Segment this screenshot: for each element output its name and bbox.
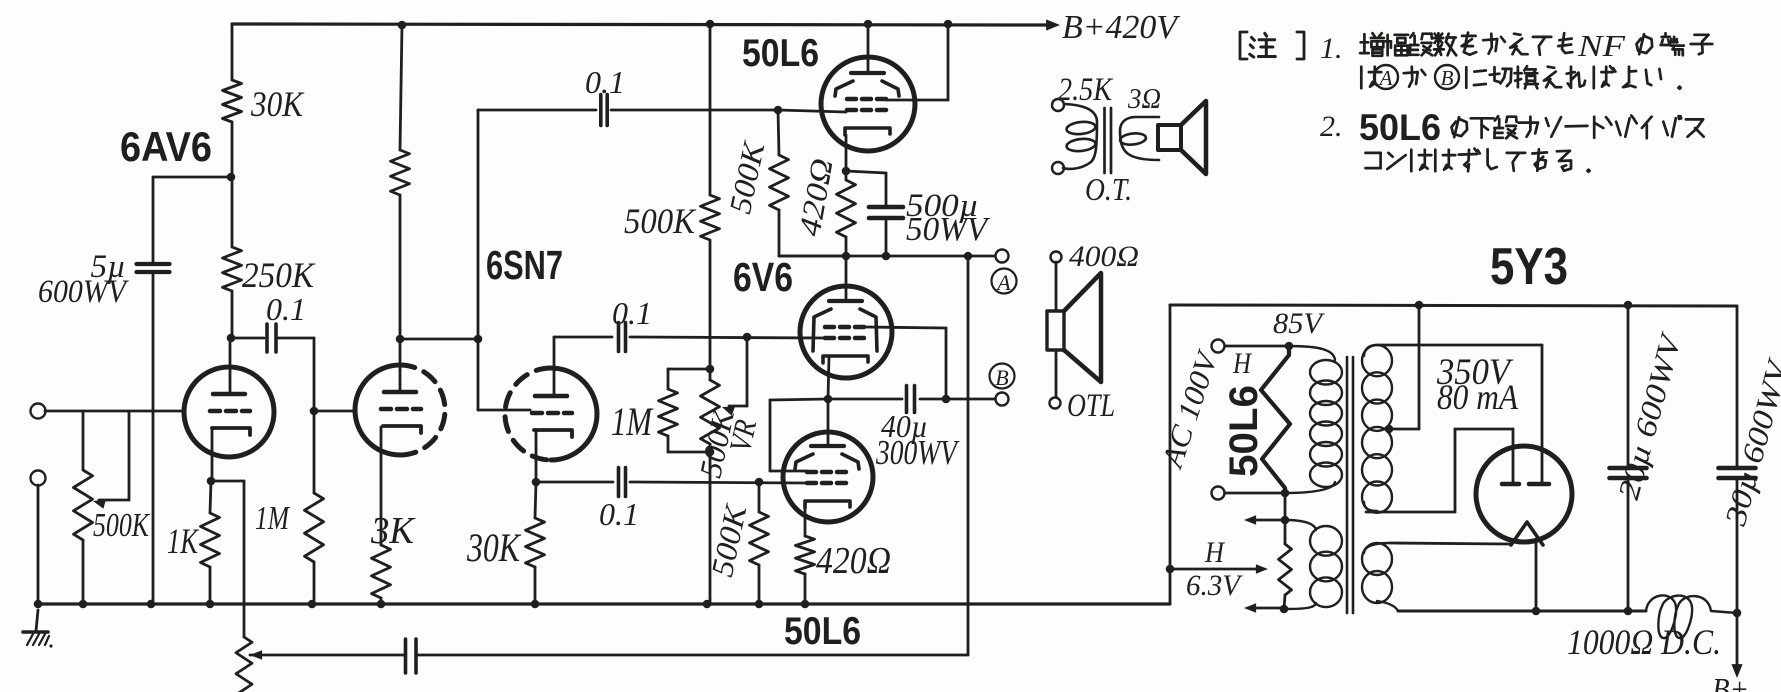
capacitor 0.1 A	[265, 324, 269, 352]
capacitor NFB	[404, 639, 408, 673]
terminal B	[996, 393, 1009, 406]
svg-text:O.T.: O.T.	[1085, 171, 1132, 207]
junction	[227, 173, 236, 182]
wire B+ rail	[232, 24, 1046, 25]
svg-text:6AV6: 6AV6	[120, 123, 212, 170]
junction	[1280, 605, 1289, 614]
wire plate 6AV6	[229, 338, 232, 394]
tube 6AV6	[184, 367, 274, 457]
resistor 1M parallel	[668, 368, 710, 371]
svg-text:0.1: 0.1	[266, 291, 306, 327]
svg-text:B: B	[995, 365, 1008, 390]
junction	[864, 20, 873, 29]
junction	[79, 600, 88, 609]
note line 2 text	[1361, 67, 1381, 89]
junction	[743, 333, 752, 342]
terminal AC top	[1212, 340, 1225, 353]
junction	[1285, 342, 1294, 351]
wire cathode 6AV6	[211, 428, 214, 481]
resistor 3K	[372, 545, 391, 598]
svg-text:600WV: 600WV	[38, 274, 129, 310]
junction	[474, 335, 483, 344]
svg-text:50L6: 50L6	[1222, 385, 1266, 477]
svg-text:400Ω: 400Ω	[1069, 240, 1139, 273]
svg-text:500K: 500K	[93, 507, 151, 544]
wire plate left	[1366, 511, 1455, 514]
resistor 30K	[223, 80, 242, 122]
choke 1000ohm	[1646, 595, 1737, 638]
junction	[942, 395, 951, 404]
resistor 420 upper	[845, 171, 848, 180]
wire grid 6SN7a	[314, 410, 356, 413]
svg-text:OTL: OTL	[1067, 388, 1115, 424]
junction	[964, 252, 973, 261]
svg-text:H: H	[1204, 536, 1226, 569]
junction	[1281, 489, 1290, 498]
svg-text:6SN7: 6SN7	[486, 242, 563, 288]
resistor 500K	[701, 195, 720, 240]
wire plate	[867, 24, 870, 73]
junction	[227, 334, 236, 343]
junction	[706, 448, 715, 457]
resistor humdinger	[1284, 520, 1287, 544]
svg-text:50L6: 50L6	[742, 32, 819, 75]
wire plate 6SN7b	[553, 337, 556, 396]
junction	[207, 477, 216, 486]
terminal input gnd	[31, 471, 46, 486]
svg-text:A: A	[1378, 66, 1393, 90]
wire B line	[828, 398, 902, 401]
wire NFB	[418, 654, 968, 657]
terminal input hot	[31, 404, 46, 419]
svg-text:50WV: 50WV	[906, 211, 991, 248]
resistor 30K cathode	[535, 482, 536, 518]
transformer HV secondary	[1364, 345, 1377, 356]
junction	[882, 252, 891, 261]
junction	[774, 106, 783, 115]
note line 4 text	[1366, 153, 1381, 168]
capacitor 500u 50WV	[846, 171, 886, 173]
transformer 5V winding	[1364, 543, 1390, 553]
wire cap B branch	[477, 110, 480, 339]
speaker OTL	[1047, 311, 1064, 350]
junction	[706, 20, 715, 29]
wire	[630, 482, 806, 483]
resistor plate load	[400, 25, 402, 150]
svg-text:30K: 30K	[466, 525, 522, 570]
label 500K grid	[704, 500, 754, 580]
junction	[703, 600, 712, 609]
wire	[1055, 262, 1058, 311]
wire	[920, 398, 995, 401]
wire cathode 50L6u	[845, 135, 848, 171]
resistor 250K	[223, 247, 242, 291]
junction	[755, 600, 764, 609]
junction	[308, 600, 317, 609]
capacitor 0.1 C	[617, 323, 621, 352]
label 30u 600WV	[1719, 354, 1781, 530]
transformer OT primary	[1063, 104, 1097, 169]
junction	[1166, 565, 1175, 574]
resistor 50L6 ballast	[1261, 346, 1290, 493]
wire plate 50L6l	[827, 399, 830, 446]
junction	[755, 478, 764, 487]
wire screen	[886, 99, 948, 102]
wire grid	[778, 110, 846, 112]
tube 50L6 lower	[783, 432, 873, 522]
terminal OT pri top	[1052, 99, 1064, 111]
resistor 420 lower	[796, 536, 815, 574]
tube 6SN7 a	[355, 365, 400, 455]
wire	[630, 337, 826, 338]
pot wiper	[128, 411, 131, 500]
wire	[1055, 350, 1058, 398]
wire	[231, 337, 264, 340]
junction	[310, 407, 319, 416]
wire	[1225, 492, 1285, 495]
wire CT	[1389, 428, 1419, 431]
wire 5V to filament	[1390, 543, 1509, 544]
label 20u 600WV	[1612, 328, 1688, 503]
svg-text:0.1: 0.1	[599, 496, 639, 532]
junction	[801, 600, 810, 609]
svg-text:50L6: 50L6	[1359, 107, 1441, 148]
junction	[824, 395, 833, 404]
wire 30K branch	[231, 24, 234, 80]
junction	[1532, 607, 1541, 616]
pot 500K	[82, 411, 85, 470]
junction	[944, 20, 953, 29]
capacitor 20u	[1627, 305, 1630, 468]
potentiometer 500K VR	[701, 380, 720, 444]
transformer OT secondary	[1120, 117, 1159, 160]
svg-text:50L6: 50L6	[784, 610, 861, 653]
junction	[377, 600, 386, 609]
capacitor 0.1 B	[599, 95, 603, 126]
label 420 upper	[792, 156, 840, 239]
junction	[532, 478, 541, 487]
resistor 500K grid	[758, 482, 761, 512]
svg-text:3Ω: 3Ω	[1127, 83, 1161, 115]
svg-text:300WV: 300WV	[875, 433, 960, 472]
note bracket 注	[1240, 32, 1247, 59]
tube 50L6 upper	[821, 57, 915, 151]
capacitor 40u 300WV	[905, 386, 909, 413]
wire PS left vertical	[1169, 305, 1172, 604]
wire B+ bus	[1398, 610, 1646, 613]
node A circled	[992, 269, 1017, 294]
note line 1 text	[1360, 33, 1384, 56]
wire filament	[1535, 542, 1538, 611]
svg-text:B+: B+	[1712, 671, 1749, 692]
label 500K fb	[722, 137, 772, 217]
wire screen 50L6l	[770, 399, 828, 400]
svg-text:500K: 500K	[624, 201, 697, 241]
wire plate 6V6	[845, 256, 848, 301]
resistor 1K	[210, 481, 211, 513]
resistor 1M	[313, 411, 316, 493]
wire	[152, 272, 155, 604]
junction	[1624, 301, 1633, 310]
junction	[1415, 301, 1424, 310]
terminal 400ohm	[1051, 252, 1062, 263]
heater lead arrow bottom	[1250, 607, 1284, 610]
ground symbol	[36, 610, 38, 631]
svg-text:NF: NF	[1577, 28, 1626, 63]
svg-text:1M: 1M	[255, 500, 290, 537]
svg-text:2.: 2.	[1320, 110, 1343, 143]
svg-text:0.1: 0.1	[612, 295, 652, 331]
wire	[536, 481, 613, 484]
junction	[398, 21, 407, 30]
heater wiper arrow	[1170, 568, 1260, 571]
wire plate 6SN7a	[399, 339, 402, 392]
junction	[842, 167, 851, 176]
wire	[709, 452, 712, 604]
resistor 500K fb	[778, 110, 779, 155]
wire cathode 6SN7a	[380, 427, 383, 545]
label AC100V	[1155, 345, 1225, 473]
wire	[231, 122, 234, 247]
wire PS ground bus	[1170, 305, 1737, 306]
terminal A	[996, 250, 1009, 263]
svg-text:1K: 1K	[167, 521, 199, 561]
svg-text:420Ω: 420Ω	[816, 540, 891, 582]
wire	[1284, 493, 1287, 520]
svg-text:30K: 30K	[250, 84, 305, 124]
junction	[531, 600, 540, 609]
svg-text:1M: 1M	[611, 399, 654, 444]
svg-text:B: B	[1441, 66, 1454, 90]
wire	[611, 109, 778, 112]
heater lead arrow top	[1250, 519, 1285, 522]
terminal OT pri bot	[1052, 162, 1064, 174]
wire screen 6V6	[865, 327, 946, 328]
svg-text:85V: 85V	[1273, 307, 1326, 340]
tube 5Y3	[1476, 446, 1572, 542]
wire	[37, 485, 40, 604]
terminal OTL	[1050, 398, 1061, 409]
junction	[396, 335, 405, 344]
transformer primary	[1289, 346, 1335, 360]
capacitor 5u 600WV	[137, 262, 170, 266]
wire	[709, 240, 712, 369]
svg-text:0.1: 0.1	[585, 64, 625, 100]
speaker OT	[1158, 125, 1181, 150]
svg-text:A: A	[995, 270, 1011, 295]
svg-text:1.: 1.	[1320, 32, 1343, 65]
wire cathode 50L6l	[804, 501, 807, 536]
svg-text:5Y3: 5Y3	[1490, 238, 1568, 296]
svg-text:3K: 3K	[370, 510, 416, 552]
wire input	[45, 410, 185, 413]
junction	[34, 600, 43, 609]
svg-text:6.3V: 6.3V	[1186, 569, 1244, 602]
wire cathode 6SN7b	[535, 432, 538, 482]
wire	[231, 291, 234, 338]
svg-text:1000Ω D.C.: 1000Ω D.C.	[1567, 622, 1721, 662]
terminal AC bot	[1212, 487, 1225, 500]
wire B+ arrow	[1736, 613, 1739, 668]
junction	[842, 252, 851, 261]
junction	[1624, 607, 1633, 616]
transformer OT core	[1103, 108, 1106, 173]
node B circled	[990, 364, 1015, 389]
wire	[709, 24, 712, 195]
tube 6SN7 b	[551, 368, 597, 460]
junction	[1281, 516, 1290, 525]
svg-text:6V6: 6V6	[733, 254, 793, 300]
wire ground rail	[38, 602, 1170, 605]
svg-text:250K: 250K	[242, 255, 316, 295]
junction CT	[1385, 425, 1394, 434]
pot NFB wiper arrow	[250, 650, 262, 660]
junction	[147, 600, 156, 609]
transformer core	[1346, 357, 1349, 613]
svg-text:B+420V: B+420V	[1062, 9, 1181, 46]
wiper 500K VR	[746, 337, 749, 406]
capacitor 0.1 D	[617, 468, 621, 497]
wire	[1225, 345, 1289, 348]
svg-text:H: H	[1232, 347, 1253, 380]
svg-text:2.5K: 2.5K	[1058, 72, 1114, 108]
wire NFB branch	[211, 480, 244, 483]
junction	[706, 365, 715, 374]
wire A line	[779, 255, 995, 258]
label 50L6 ballast	[1222, 385, 1266, 477]
junction	[1733, 609, 1742, 618]
wire cathode 6V6	[828, 356, 829, 399]
junction	[206, 600, 215, 609]
wire grid 6SN7b	[477, 339, 480, 410]
transformer heater winding	[1285, 520, 1316, 530]
capacitor 30u	[1736, 306, 1739, 468]
svg-text:80 mA: 80 mA	[1437, 377, 1519, 417]
tube 6V6	[800, 286, 892, 378]
wire link	[400, 338, 478, 341]
wire plate right	[1378, 344, 1542, 347]
pot NFB	[236, 637, 252, 692]
wire	[278, 337, 314, 340]
label 500K VR	[693, 405, 742, 481]
wire to 5u cap	[153, 176, 231, 179]
